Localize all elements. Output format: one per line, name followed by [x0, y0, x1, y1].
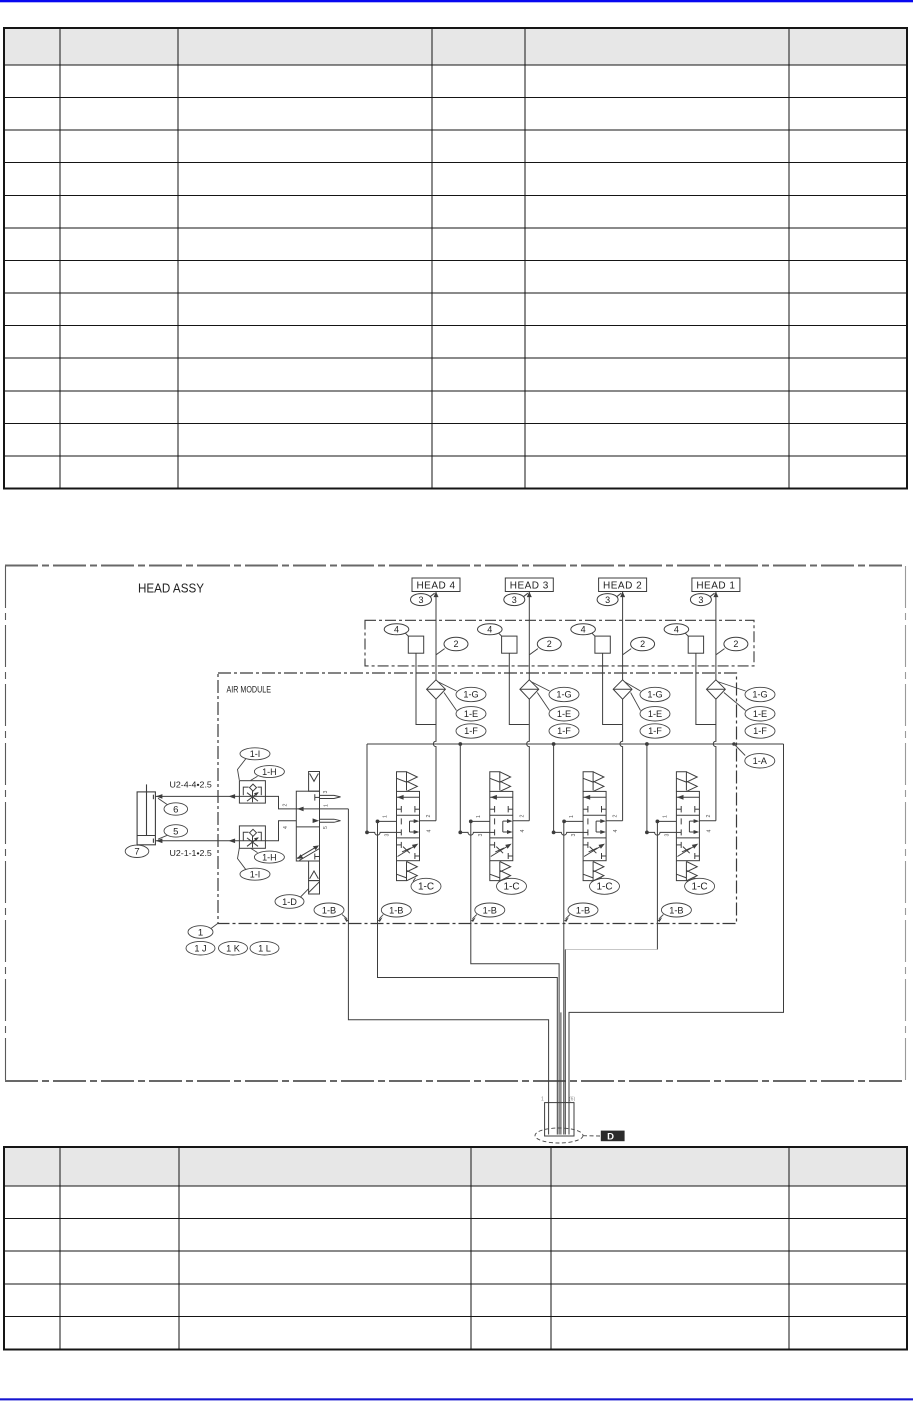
top blue rule	[0, 0, 913, 2]
balloon 1 K	[219, 941, 248, 955]
head fitting dash-dot box	[365, 620, 754, 666]
svg-text:2: 2	[733, 639, 738, 649]
svg-text:5: 5	[323, 826, 329, 829]
wire tube valve1 port1 to connector	[378, 821, 558, 1134]
connector body	[545, 1103, 574, 1136]
svg-text:2: 2	[547, 639, 552, 649]
leader 1-G col 4	[685, 682, 775, 895]
svg-text:1-C: 1-C	[692, 882, 708, 893]
svg-text:1-B: 1-B	[576, 905, 590, 915]
1-D pos1 blocked port	[314, 794, 316, 800]
balloon 1-G	[745, 687, 775, 701]
balloon 1-F	[640, 724, 670, 738]
balloon 1-F	[745, 724, 775, 738]
balloon 1-H	[254, 766, 284, 778]
wire tube hand valve supply to connector	[348, 809, 548, 1135]
balloon 1-F	[549, 724, 579, 738]
wire through 1-D to supply drop	[296, 808, 348, 810]
balloon 1-E	[640, 707, 670, 721]
svg-text:U2-4-4•2.5: U2-4-4•2.5	[170, 781, 213, 790]
balloon 1-G	[549, 687, 579, 701]
bottom parts table (empty rows)	[4, 1147, 907, 1350]
svg-text:1-B: 1-B	[483, 905, 497, 915]
1-D top actuator	[309, 772, 320, 792]
leader upper 1-I	[238, 759, 247, 781]
leader 1-C	[592, 878, 603, 882]
balloon 1-C	[411, 878, 441, 894]
svg-text:4: 4	[581, 624, 586, 634]
svg-text:3: 3	[698, 595, 703, 605]
flow control valve upper 1-H	[239, 781, 265, 803]
1-D exhaust pin port 3	[320, 795, 341, 798]
svg-text:1-I: 1-I	[250, 869, 261, 879]
balloon 6	[164, 803, 188, 815]
svg-text:1-C: 1-C	[503, 882, 519, 893]
svg-text:2: 2	[453, 639, 458, 649]
svg-text:1-B: 1-B	[322, 905, 336, 915]
svg-text:1: 1	[324, 804, 330, 807]
svg-text:2: 2	[283, 804, 289, 807]
leader 1-G col 2	[497, 682, 580, 895]
svg-text:1-I: 1-I	[250, 749, 261, 759]
wire supply trunk to connector	[569, 744, 784, 1135]
balloon 1	[188, 926, 213, 939]
wire through upper flow control	[239, 795, 265, 797]
valve column 4 : HEAD 1	[645, 578, 748, 881]
svg-text:3: 3	[605, 595, 610, 605]
svg-text:(6): (6)	[569, 1097, 575, 1103]
balloon 1 L	[250, 941, 279, 955]
leader 1-C	[499, 878, 509, 882]
HEAD ASSY outer dash-dot border left	[5, 566, 7, 1081]
svg-text:7: 7	[134, 847, 139, 858]
balloon 1-C	[590, 878, 620, 894]
svg-text:1-B: 1-B	[669, 905, 683, 915]
balloon 1-I	[240, 748, 270, 760]
svg-text:4: 4	[674, 624, 679, 634]
wire tube valve2 port1 to connector	[471, 821, 559, 1134]
balloon 1 J	[186, 941, 215, 955]
wire tube valve4 port1 to connector	[656, 821, 658, 949]
leader lower 1-I	[238, 848, 247, 870]
AIR MODULE dash-dot boundary	[218, 673, 737, 924]
flow arrows at flow control inlets	[229, 794, 236, 799]
valve column 3 : HEAD 2	[552, 578, 655, 881]
svg-text:1: 1	[198, 927, 203, 938]
wire main supply header	[367, 743, 784, 745]
extra tube in bundle	[560, 1012, 562, 1134]
cylinder body	[137, 792, 155, 845]
balloon 1-B #4	[568, 903, 598, 917]
1-D bottom actuator	[309, 861, 320, 881]
svg-text:2: 2	[640, 639, 645, 649]
balloon 1-E	[549, 707, 579, 721]
svg-text:HEAD 4: HEAD 4	[416, 580, 455, 591]
wire upper flow control to 1-D port 2	[265, 796, 296, 809]
svg-text:1-E: 1-E	[557, 709, 571, 719]
balloon digits col 1	[394, 595, 459, 649]
cylinder rod	[146, 784, 148, 835]
svg-text:1-B: 1-B	[389, 905, 403, 915]
balloon 1-H	[254, 851, 284, 863]
leader 1-B #2	[379, 915, 383, 919]
svg-text:1-H: 1-H	[262, 852, 277, 862]
svg-text:1: 1	[541, 1097, 544, 1103]
balloon 1-I	[240, 868, 270, 880]
svg-text:1-G: 1-G	[556, 690, 571, 700]
svg-text:1-A: 1-A	[753, 756, 768, 766]
balloon digits col 2	[487, 595, 552, 649]
svg-text:HEAD 1: HEAD 1	[696, 580, 735, 591]
balloon 1-G	[456, 687, 486, 701]
svg-text:1-G: 1-G	[463, 690, 478, 700]
svg-text:1-F: 1-F	[557, 726, 571, 736]
svg-text:U2-1-1•2.5: U2-1-1•2.5	[170, 849, 213, 858]
svg-text:1-E: 1-E	[464, 709, 478, 719]
svg-text:1-C: 1-C	[596, 882, 612, 893]
svg-text:1-C: 1-C	[418, 882, 434, 893]
svg-text:1-F: 1-F	[648, 726, 662, 736]
leader 1-E col 1	[444, 693, 457, 711]
svg-text:D: D	[607, 1131, 614, 1142]
svg-text:HEAD 2: HEAD 2	[603, 580, 642, 591]
svg-text:AIR MODULE: AIR MODULE	[227, 685, 272, 696]
cylinder port ticks	[152, 795, 154, 800]
svg-text:1-F: 1-F	[464, 726, 478, 736]
balloon 5	[164, 825, 188, 837]
balloon 1-A	[745, 754, 775, 768]
svg-text:1-G: 1-G	[647, 690, 662, 700]
svg-text:5: 5	[173, 826, 178, 837]
connector dashed ellipse	[535, 1128, 583, 1143]
svg-text:1 J: 1 J	[194, 944, 206, 954]
svg-text:1-G: 1-G	[752, 690, 767, 700]
bottom blue rule	[0, 1398, 913, 1400]
balloon 1-C	[685, 878, 715, 894]
svg-text:6: 6	[173, 804, 178, 815]
balloon digits col 4	[674, 595, 739, 649]
svg-text:4: 4	[283, 826, 289, 829]
svg-text:1-E: 1-E	[648, 709, 662, 719]
leader 1-E col 3	[631, 693, 641, 711]
balloon 1-B #5	[661, 903, 691, 917]
leader 1-B #3	[472, 915, 476, 919]
valve column 1 : HEAD 4	[365, 578, 468, 881]
leader 1-B #4	[566, 915, 570, 919]
wire tube valve3 port1 to connector	[563, 821, 565, 1134]
balloon 1-E	[456, 707, 486, 721]
balloon 1-G	[640, 687, 670, 701]
svg-text:1-D: 1-D	[282, 897, 297, 907]
balloon digits col 3	[581, 595, 646, 649]
svg-text:1 K: 1 K	[226, 944, 241, 954]
leader 1-D	[301, 889, 309, 898]
flow control valve lower 1-H	[239, 826, 265, 848]
detail tag D	[601, 1131, 625, 1142]
leader balloon 6	[158, 798, 168, 805]
leader 1-G col 3	[590, 682, 671, 895]
junction dot 1-A leader	[732, 742, 736, 746]
port labels 1-D	[283, 791, 330, 830]
leader upper 1-H	[251, 776, 258, 780]
1-D exhaust pin port 5	[320, 819, 341, 822]
leader 1-B #5	[659, 915, 664, 919]
balloon 1-C	[497, 878, 527, 894]
leader balloon 5	[158, 835, 168, 839]
leader 1-B #1	[342, 915, 347, 919]
balloon 1-B #1	[314, 903, 344, 917]
svg-text:HEAD 3: HEAD 3	[510, 580, 549, 591]
svg-text:4: 4	[394, 624, 399, 634]
balloon 1-E	[745, 707, 775, 721]
leader 1-C	[413, 878, 416, 882]
hand valve 1-D body	[296, 791, 319, 861]
svg-text:1-E: 1-E	[753, 709, 767, 719]
leader balloon 7	[137, 844, 138, 846]
wire lower flow control to 1-D port 4	[265, 821, 296, 841]
svg-text:4: 4	[487, 624, 492, 634]
dashed leader to D tag	[583, 1135, 601, 1137]
supply line junction dots	[458, 742, 462, 746]
top parts table (empty rows)	[4, 28, 907, 489]
balloon 1-F	[456, 724, 486, 738]
svg-text:HEAD ASSY: HEAD ASSY	[138, 582, 205, 596]
leader 1-C	[687, 878, 696, 882]
leader 1-E col 4	[724, 693, 746, 711]
balloon 1-D	[275, 895, 304, 909]
wire through lower flow control	[239, 840, 265, 842]
svg-text:1 L: 1 L	[258, 944, 271, 954]
HEAD ASSY outer dash-dot border right	[905, 566, 907, 1081]
svg-text:3: 3	[323, 791, 329, 794]
wire cylinder bottom port to flow control	[155, 840, 239, 842]
HEAD ASSY outer dash-dot border top	[5, 565, 906, 567]
svg-text:3: 3	[512, 595, 517, 605]
wire cylinder top port to flow control	[155, 795, 239, 797]
balloon 1-B #3	[475, 903, 505, 917]
svg-text:1-F: 1-F	[753, 726, 767, 736]
HEAD ASSY outer dash-dot border bottom	[5, 1080, 906, 1082]
balloon 7	[125, 845, 149, 857]
leader 1-E col 2	[537, 693, 549, 711]
1-D pos2 crossed arrows	[297, 847, 317, 859]
svg-text:3: 3	[418, 595, 423, 605]
svg-text:1-H: 1-H	[262, 767, 277, 777]
leader 1-G col 1	[411, 682, 486, 895]
leader lower 1-H	[251, 848, 258, 853]
valve column 2 : HEAD 3	[458, 578, 561, 881]
balloon 1-B #2	[381, 903, 411, 917]
